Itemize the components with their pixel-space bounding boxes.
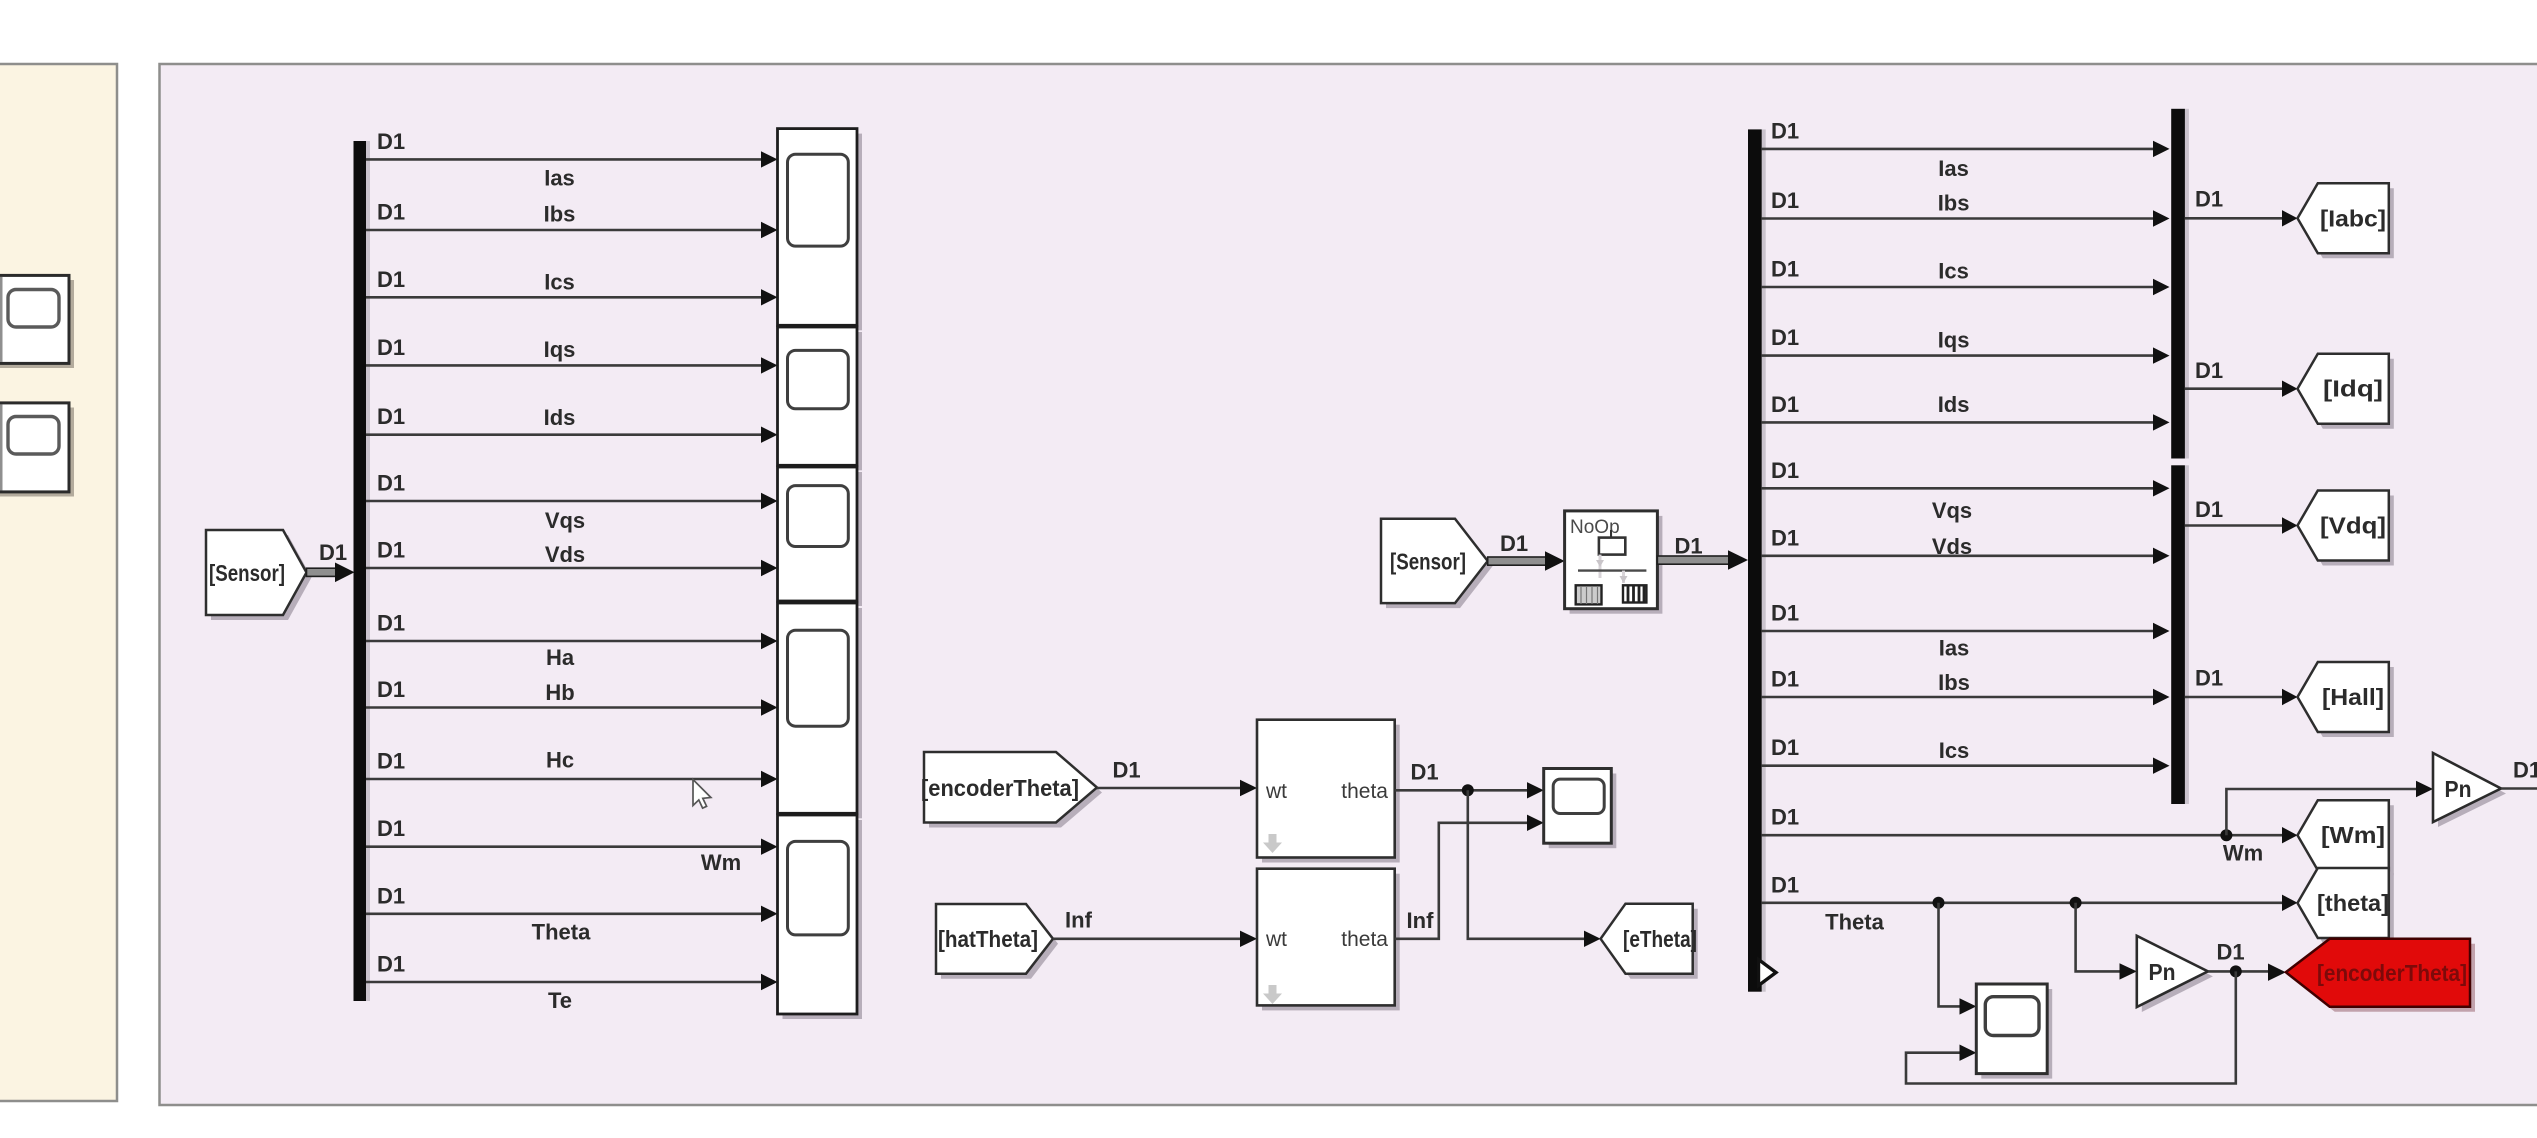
svg-text:D1: D1 (377, 335, 405, 360)
wire R11 (Wm) from bus B2 to [Wm] tag (1762, 834, 2284, 837)
wire [encoderTheta] to subsystem U1 (1097, 787, 1242, 790)
svg-text:D1: D1 (2195, 497, 2223, 522)
From tag [Sensor] (left) (206, 530, 312, 620)
gain Pn1 (2433, 753, 2506, 827)
svg-text:Wm: Wm (701, 850, 741, 875)
svg-text:Ics: Ics (1939, 738, 1970, 763)
thick wire NoOp to bus B2 (1657, 534, 1748, 570)
subsystem U2 (wt->theta) (1257, 869, 1400, 1011)
svg-text:[Wm]: [Wm] (2321, 822, 2385, 848)
svg-text:Ibs: Ibs (1938, 191, 1970, 216)
svg-text:D1: D1 (1674, 534, 1702, 559)
NoOp block (1565, 511, 1663, 614)
junction node on Wm wire (2220, 829, 2232, 841)
bus bar B1 (left demux) (366, 141, 370, 1001)
wire R9 (Ibs) from bus B2 to bus B3 (1762, 696, 2155, 699)
Goto tag [Iabc] (2298, 183, 2394, 258)
svg-text:Hc: Hc (546, 748, 574, 773)
junction node on U1 output (1462, 784, 1474, 796)
scope block A (left panel) (0, 275, 74, 368)
svg-text:Ias: Ias (1938, 156, 1969, 181)
wire U1 theta output with junction (1395, 789, 1529, 792)
svg-text:Ias: Ias (544, 166, 575, 191)
svg-text:D1: D1 (377, 129, 405, 154)
wire L5 (Ids) from bus B1 to scope column (366, 433, 763, 436)
svg-text:Ibs: Ibs (1938, 670, 1970, 695)
svg-text:[encoderTheta]: [encoderTheta] (921, 775, 1079, 801)
wire [hatTheta] to subsystem U2 (1053, 937, 1242, 940)
svg-text:wt: wt (1265, 780, 1287, 803)
wire bus B3 out to [Hall] (2185, 696, 2284, 699)
svg-text:D1: D1 (377, 404, 405, 429)
svg-text:D1: D1 (1771, 525, 1799, 550)
Goto tag [theta] (2298, 868, 2394, 943)
scope stack block 5 (778, 815, 863, 1019)
wire L12 (Theta) from bus B1 to scope column (366, 912, 763, 915)
Goto tag [Vdq] (2298, 491, 2394, 566)
svg-text:D1: D1 (377, 952, 405, 977)
svg-text:D1: D1 (1771, 667, 1799, 692)
svg-text:Hb: Hb (545, 680, 574, 705)
svg-text:D1: D1 (377, 749, 405, 774)
svg-text:D1: D1 (377, 883, 405, 908)
svg-text:[Iabc]: [Iabc] (2320, 205, 2386, 231)
svg-text:Ias: Ias (1939, 636, 1970, 661)
svg-text:theta: theta (1341, 928, 1388, 951)
svg-text:D1: D1 (377, 677, 405, 702)
scope stack block 3 (778, 467, 863, 606)
wire loop Pn2 output down to scope SC2 input 2 (1906, 971, 2236, 1083)
junction node on Pn2 output (2230, 965, 2242, 977)
svg-text:D1: D1 (2195, 358, 2223, 383)
svg-text:D1: D1 (377, 816, 405, 841)
wire R5 (Ids) from bus B2 to bus B3 (1762, 421, 2155, 424)
svg-text:D1: D1 (377, 267, 405, 292)
svg-text:D1: D1 (1771, 601, 1799, 626)
svg-text:D1: D1 (1771, 458, 1799, 483)
svg-text:[hatTheta]: [hatTheta] (938, 926, 1038, 952)
wire L7 (Vds) from bus B1 to scope column (366, 567, 763, 570)
svg-text:Ha: Ha (546, 645, 575, 670)
wire Theta branch down to scope SC2 input 1 (1939, 903, 1962, 1007)
svg-text:D1: D1 (1112, 758, 1140, 783)
svg-text:Ids: Ids (1938, 392, 1970, 417)
wire Theta branch down to gain Pn2 (2076, 903, 2121, 972)
wire L13 (Te) from bus B1 to scope column (366, 981, 763, 984)
svg-text:D1: D1 (1771, 735, 1799, 760)
svg-text:[Idq]: [Idq] (2323, 376, 2383, 402)
svg-text:D1: D1 (2195, 665, 2223, 690)
svg-text:NoOp: NoOp (1570, 517, 1620, 538)
Goto tag [Hall] (2298, 662, 2394, 737)
svg-text:D1: D1 (1771, 257, 1799, 282)
From tag [encoderTheta] (921, 752, 1102, 828)
wire bus B3 out to [Iabc] (2185, 217, 2284, 220)
wire R6 (Vqs) from bus B2 to bus B3 (1762, 487, 2155, 490)
svg-text:D1: D1 (1771, 872, 1799, 897)
svg-text:theta: theta (1341, 780, 1388, 803)
bus bar B3 lower segment (2185, 465, 2189, 804)
svg-text:[Sensor]: [Sensor] (209, 560, 285, 586)
svg-text:[Vdq]: [Vdq] (2320, 513, 2386, 539)
bus bar B2 (right demux) (1762, 129, 1766, 991)
Goto tag [encoderTheta] (red) (2286, 939, 2475, 1012)
scope stack block 2 (778, 327, 863, 470)
wire L8 (Ha) from bus B1 to scope column (366, 640, 763, 643)
scope SC2 (1976, 984, 2052, 1079)
svg-text:D1: D1 (1410, 760, 1438, 785)
svg-text:D1: D1 (1771, 188, 1799, 213)
wire R1 (Ias) from bus B2 to bus B3 (1762, 148, 2155, 151)
From tag [hatTheta] (936, 904, 1058, 979)
svg-text:D1: D1 (377, 200, 405, 225)
wire L11 (Wm) from bus B1 to scope column (366, 845, 763, 848)
svg-text:D1: D1 (377, 611, 405, 636)
gain Pn2 (2137, 936, 2213, 1012)
wire R12 (Theta) from bus B2 to [theta] tag (1762, 901, 2284, 904)
svg-text:[theta]: [theta] (2317, 890, 2389, 916)
wire R2 (Ibs) from bus B2 to bus B3 (1762, 217, 2155, 220)
From tag [Sensor] (middle) (1381, 519, 1493, 608)
svg-text:Ics: Ics (544, 270, 575, 295)
svg-text:Pn: Pn (2149, 959, 2176, 985)
svg-text:Pn: Pn (2445, 776, 2472, 802)
svg-text:D1: D1 (377, 538, 405, 563)
svg-text:Vds: Vds (545, 542, 585, 567)
svg-text:wt: wt (1265, 928, 1287, 951)
wire L3 (Ics) from bus B1 to scope column (366, 296, 763, 299)
subsystem U1 (wt->theta) (1257, 720, 1400, 863)
wire Wm branch up to gain Pn1 (2226, 789, 2418, 835)
svg-text:D1: D1 (1771, 118, 1799, 143)
svg-text:Te: Te (548, 988, 572, 1013)
svg-text:Vds: Vds (1932, 534, 1972, 559)
wire R3 (Ics) from bus B2 to bus B3 (1762, 286, 2155, 289)
svg-text:D1: D1 (1771, 325, 1799, 350)
Goto tag [eTheta] (1601, 904, 1698, 979)
svg-text:Iqs: Iqs (1938, 328, 1970, 353)
scope stack block 4 (778, 603, 863, 818)
wire U2 theta output up to scope SC1 input 2 (1395, 823, 1529, 939)
svg-text:D1: D1 (1771, 392, 1799, 417)
svg-text:D1: D1 (1771, 805, 1799, 830)
wire L1 (Ias) from bus B1 to scope column (366, 158, 763, 161)
Goto tag [Wm] (2298, 800, 2394, 875)
svg-text:Ids: Ids (544, 405, 576, 430)
wire L6 (Vqs) from bus B1 to scope column (366, 500, 763, 503)
svg-text:Theta: Theta (532, 920, 591, 945)
svg-text:D1: D1 (319, 540, 347, 565)
wire Pn2 output to [encoderTheta] (2208, 970, 2270, 973)
scope stack block 1 (778, 129, 863, 331)
svg-text:D1: D1 (2216, 940, 2244, 965)
svg-text:Inf: Inf (1407, 908, 1435, 933)
mouse cursor (693, 780, 711, 809)
svg-text:[Sensor]: [Sensor] (1390, 549, 1466, 575)
wire L10 (Hc) from bus B1 to scope column (366, 778, 763, 781)
thick wire from [Sensor] to bus B1 (307, 540, 355, 582)
Goto tag [Idq] (2298, 354, 2394, 429)
wire bus B3 out to [Vdq] (2185, 524, 2284, 527)
svg-text:Inf: Inf (1065, 908, 1093, 933)
svg-text:Iqs: Iqs (544, 337, 576, 362)
svg-text:Wm: Wm (2223, 841, 2263, 866)
svg-text:D1: D1 (1500, 531, 1528, 556)
wire R10 (Ics) from bus B2 to bus B3 (1762, 764, 2155, 767)
wire L2 (Ibs) from bus B1 to scope column (366, 229, 763, 232)
wire branch down to [eTheta] (1468, 790, 1586, 939)
scope block B (left panel) (0, 403, 74, 497)
wire R8 (Ias) from bus B2 to bus B3 (1762, 630, 2155, 633)
svg-text:Theta: Theta (1825, 910, 1884, 935)
junction node Theta->Pn2 (2070, 897, 2082, 909)
svg-text:D1: D1 (2195, 187, 2223, 212)
thick wire [Sensor] to NoOp (1488, 531, 1565, 571)
wire Pn1 output to edge (2501, 787, 2537, 790)
wire bus B3 out to [Idq] (2185, 387, 2284, 390)
wire L4 (Iqs) from bus B1 to scope column (366, 364, 763, 367)
svg-text:Ibs: Ibs (544, 202, 576, 227)
wire R4 (Iqs) from bus B2 to bus B3 (1762, 354, 2155, 357)
svg-text:Vqs: Vqs (545, 508, 585, 533)
svg-text:[Hall]: [Hall] (2322, 684, 2384, 710)
scope SC1 (1544, 769, 1617, 849)
svg-text:Vqs: Vqs (1932, 498, 1972, 523)
wire R7 (Vds) from bus B2 to bus B3 (1762, 554, 2155, 557)
bus B2 bottom chevron (1759, 960, 1777, 986)
svg-text:[encoderTheta]: [encoderTheta] (2317, 960, 2467, 986)
bus bar B3 upper segment (2185, 109, 2189, 459)
wire L9 (Hb) from bus B1 to scope column (366, 706, 763, 709)
left palette panel (0, 64, 117, 1101)
svg-text:Ics: Ics (1938, 259, 1969, 284)
svg-text:D1: D1 (2513, 758, 2537, 783)
junction node Theta->scope (1933, 897, 1945, 909)
svg-text:[eTheta]: [eTheta] (1623, 926, 1697, 952)
svg-text:D1: D1 (377, 471, 405, 496)
